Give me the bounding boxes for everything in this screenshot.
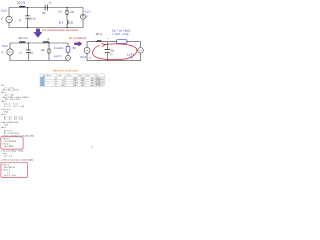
svg-text:1+j2 V: 1+j2 V xyxy=(54,54,62,58)
impedance Z2 (blue box, top rail) xyxy=(117,40,128,44)
svg-text:0. ~ 7.2 0.2° ~ 1.35: 0. ~ 7.2 0.2° ~ 1.35 xyxy=(4,106,25,108)
svg-text:Variáveis definidas: Variáveis definidas xyxy=(52,68,78,72)
svg-text:5∠0: 5∠0 xyxy=(1,9,7,13)
wire top rail xyxy=(9,7,83,9)
svg-text:-j1: -j1 xyxy=(48,0,52,4)
svg-text:V˜: V˜ xyxy=(1,50,4,54)
table select-all corner xyxy=(42,75,45,77)
svg-text:A: = 3.4: A: = 3.4 xyxy=(4,130,12,133)
red result box 2 xyxy=(1,162,28,177)
svg-text:+: + xyxy=(108,37,110,40)
svg-text:2Ω: 2Ω xyxy=(111,48,114,52)
wire left vertical c2 xyxy=(9,43,11,61)
svg-text:-- Va = 2∠-45(1) - Vb(1): -- Va = 2∠-45(1) - Vb(1) xyxy=(1,149,24,152)
svg-text:-j1: -j1 xyxy=(18,18,22,22)
svg-text:V˜: V˜ xyxy=(1,16,4,20)
capacitor C3 (shunt) xyxy=(26,50,30,52)
svg-text:j1: j1 xyxy=(47,37,51,41)
capacitor C2 (shunt) xyxy=(25,16,29,18)
svg-text:0.5: 0.5 xyxy=(58,9,62,13)
inductor L1 xyxy=(20,6,26,7)
svg-text:(V): (V) xyxy=(130,57,133,59)
svg-text:Ithev =: Ithev = xyxy=(3,163,10,166)
svg-text:0.000: 0.000 xyxy=(96,85,100,87)
svg-text:V: V xyxy=(89,57,91,60)
arrow down (source transformation) xyxy=(34,29,42,38)
svg-text:2Ω: 2Ω xyxy=(70,10,73,14)
impedance Z1 (blue box) xyxy=(66,46,70,52)
svg-text:A: 1.2 - 0.4j: A: 1.2 - 0.4j xyxy=(5,174,16,177)
inductor L4 xyxy=(43,42,49,43)
wire bottom rail c2 xyxy=(10,60,68,62)
svg-text:5∠0: 5∠0 xyxy=(81,55,87,59)
svg-text:-j1: -j1 xyxy=(19,50,23,54)
svg-text:-j1: -j1 xyxy=(110,52,114,56)
svg-text:2Ω: 2Ω xyxy=(69,20,72,24)
svg-text:Fiz transformação de fontes: Fiz transformação de fontes xyxy=(42,28,78,32)
svg-text:Vthev =: Vthev = xyxy=(3,169,11,172)
wire shunt branch node B xyxy=(66,8,68,28)
inductor L2 (shunt lower) xyxy=(67,21,68,25)
svg-text:= (0.2 - 0.4j): = (0.2 - 0.4j) xyxy=(112,32,128,36)
resistor R1 (shunt upper) xyxy=(66,11,68,15)
svg-text:A. ~ 3.2 3.2 ~ 1.3j: A. ~ 3.2 3.2 ~ 1.3j xyxy=(4,118,23,121)
svg-text:0.5j: 0.5j xyxy=(21,0,26,4)
red result box 1 xyxy=(1,137,23,149)
svg-text:A: 0.608256: A: 0.608256 xyxy=(5,140,17,143)
svg-text:4: 4 xyxy=(55,85,56,87)
wire bottom rail xyxy=(9,27,83,29)
svg-text:Fiz no Mathcad: Fiz no Mathcad xyxy=(69,37,87,40)
inductor L3 xyxy=(19,42,25,43)
svg-text:V: V xyxy=(86,16,88,19)
wire right vertical c2 xyxy=(67,43,69,61)
svg-text:1∠45: 1∠45 xyxy=(127,52,135,56)
table option values xyxy=(96,78,100,87)
svg-text:A: 0.85176: A: 0.85176 xyxy=(5,166,16,169)
svg-text:Nome: Nome xyxy=(46,75,51,77)
svg-text:j0.4: j0.4 xyxy=(58,21,64,25)
svg-text:~ 0.4: ~ 0.4 xyxy=(5,172,11,174)
svg-text:-- (Ithev), Z(comp) = solve(tr: -- (Ithev), Z(comp) = solve(trav(B)) xyxy=(1,159,34,162)
capacitor C4 (shunt) xyxy=(105,50,110,53)
junction dots c2 xyxy=(28,43,50,44)
wire right vertical xyxy=(82,8,84,28)
svg-text:λ: λ xyxy=(91,146,93,149)
inductor L5 (top rail c3) xyxy=(97,41,101,42)
arrow right (to Mathcad model) xyxy=(74,41,82,46)
svg-text:2Ω: 2Ω xyxy=(18,36,21,40)
svg-text:3∠0: 3∠0 xyxy=(85,10,91,14)
wire top rail c3 xyxy=(87,41,141,43)
capacitor C1 (series, top rail) xyxy=(45,5,48,11)
wire left vertical xyxy=(8,8,10,28)
voltage source V2 xyxy=(7,49,13,55)
svg-text:Ax =: Ax = xyxy=(2,126,7,129)
table grid xyxy=(40,74,104,86)
svg-text:5.08: 5.08 xyxy=(73,85,77,87)
svg-text:1Ω: 1Ω xyxy=(30,50,33,54)
svg-text:0.2+j0.4: 0.2+j0.4 xyxy=(54,46,64,50)
wire shunt c2 node C xyxy=(27,43,29,61)
junction dots xyxy=(27,7,68,28)
svg-text:0.65: 0.65 xyxy=(81,85,85,87)
voltage source V4 xyxy=(84,47,90,53)
svg-text:0.5j: 0.5j xyxy=(23,36,28,40)
svg-text:Valor: Valor xyxy=(67,75,71,77)
wire shunt c3 node E xyxy=(107,42,109,61)
resistor R2 (shunt) xyxy=(48,49,50,53)
svg-text:A: 2.6667: A: 2.6667 xyxy=(5,145,15,148)
wire right vertical c3 xyxy=(140,42,142,61)
voltage source V1 xyxy=(6,16,12,22)
current source I1 xyxy=(81,14,86,19)
svg-text:1Ω ℤo: 1Ω ℤo xyxy=(28,17,36,21)
svg-text:0.65: 0.65 xyxy=(61,85,65,87)
wire left vertical c3 xyxy=(86,42,88,61)
table option cells xyxy=(95,78,103,86)
voltage source V3 xyxy=(66,55,71,60)
svg-text:Tipo: Tipo xyxy=(58,75,61,77)
wire bottom rail c3 xyxy=(87,60,141,62)
svg-text:rad: rad xyxy=(91,85,94,87)
svg-text:Descr.: Descr. xyxy=(86,75,92,77)
wire top rail c2 xyxy=(10,42,68,44)
table blue row-header cells xyxy=(40,77,44,86)
svg-text:j1: j1 xyxy=(99,32,103,36)
svg-text:2Ω: 2Ω xyxy=(41,48,44,52)
svg-text:2Ω: 2Ω xyxy=(42,11,45,15)
svg-text:2Ω: 2Ω xyxy=(96,32,99,36)
red loop arrow around branch xyxy=(93,44,137,60)
table header text xyxy=(46,75,99,77)
svg-text:Ƶv: Ƶv xyxy=(73,47,77,50)
wire shunt branch node A xyxy=(27,8,29,28)
svg-text:A: ~ 2.4: A: ~ 2.4 xyxy=(5,155,13,158)
wire shunt c2 node D xyxy=(48,43,50,61)
voltage source V5 xyxy=(138,48,144,54)
svg-text:5∠0: 5∠0 xyxy=(2,44,8,48)
table data values xyxy=(55,78,94,87)
svg-text:Unid.: Unid. xyxy=(78,75,83,77)
